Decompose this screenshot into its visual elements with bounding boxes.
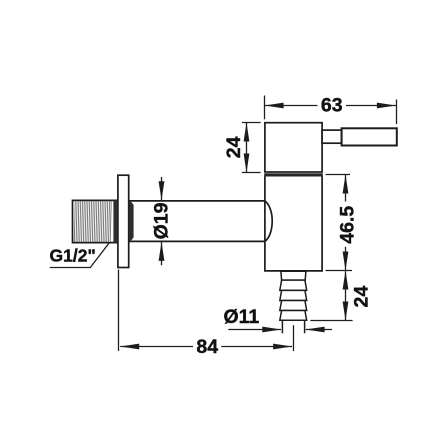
svg-text:84: 84 xyxy=(196,336,218,358)
svg-text:24: 24 xyxy=(223,136,245,158)
svg-text:46.5: 46.5 xyxy=(336,206,358,244)
svg-text:63: 63 xyxy=(321,95,343,117)
svg-text:Ø11: Ø11 xyxy=(224,306,260,328)
svg-text:24: 24 xyxy=(350,286,372,308)
svg-text:G1/2": G1/2" xyxy=(50,246,96,266)
svg-text:Ø19: Ø19 xyxy=(151,202,173,239)
